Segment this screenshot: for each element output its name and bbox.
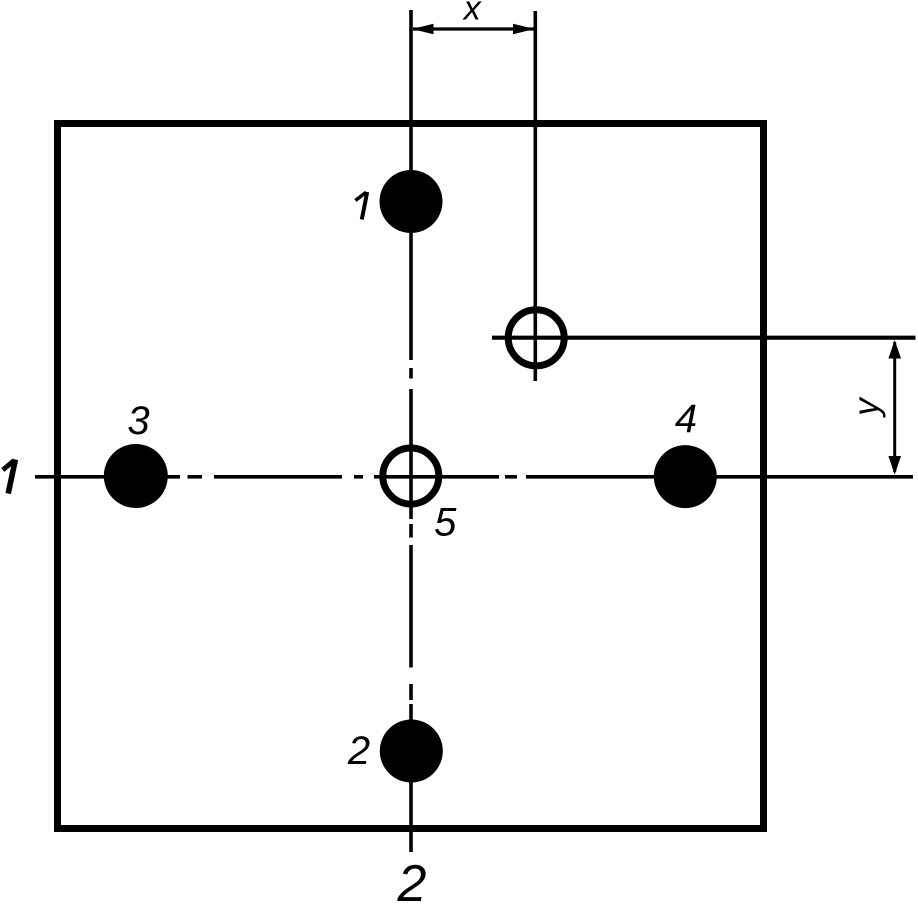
svg-text:3: 3 — [127, 399, 149, 443]
hole 4 (filled) — [654, 445, 717, 508]
hole 5 (open circle at center) — [383, 448, 439, 504]
arrowhead x right — [513, 24, 535, 34]
dimension line x — [413, 27, 534, 30]
centerline axis 1 horizontal: left solid segment — [35, 475, 180, 479]
centerline axis 1 horizontal: short dash — [188, 475, 203, 479]
centerline axis 2 vertical: middle solid segment — [409, 545, 413, 668]
dimension line y — [893, 342, 896, 472]
locating line through target circle (horizontal) — [492, 336, 916, 340]
hole 2 (filled) — [380, 720, 443, 783]
centerline axis 2 vertical: bottom solid segment — [409, 704, 413, 852]
svg-text:2: 2 — [397, 855, 427, 905]
centerline axis 2 vertical: short dash below hole 5 — [409, 524, 413, 538]
svg-text:y: y — [847, 396, 886, 418]
centerline axis 1 horizontal: short dash right of hole 5 — [505, 475, 517, 479]
centerline axis 2 vertical: segment into hole 5 — [409, 389, 413, 519]
centerline axis 2 vertical: short dash — [409, 368, 413, 379]
centerline axis 1 horizontal: long dash — [214, 475, 342, 479]
centerline axis 2 vertical: top solid segment — [409, 10, 413, 360]
centerline axis 1 horizontal: segment through hole 5 — [374, 475, 499, 479]
hole 3 (filled) — [104, 444, 168, 508]
arrowhead y top — [888, 340, 901, 359]
centerline axis 1 horizontal: short dash left of hole 5 — [354, 475, 363, 479]
centerline axis 1 horizontal: right solid segment through hole 4 — [526, 475, 913, 479]
svg-text:5: 5 — [434, 501, 457, 545]
arrowhead y bottom — [888, 456, 901, 475]
label 1 (hole) — [355, 192, 367, 220]
svg-text:x: x — [462, 0, 482, 28]
plate outline (square workpiece) — [58, 124, 764, 829]
centerline axis 2 vertical: short dash above hole 2 — [409, 684, 413, 700]
hole 1 (filled) — [380, 170, 443, 233]
extension line x-dimension (vertical through target circle) — [533, 11, 537, 381]
svg-text:4: 4 — [675, 397, 697, 441]
svg-text:2: 2 — [347, 729, 370, 773]
axis label 1 (left) — [3, 460, 16, 494]
arrowhead x left — [412, 24, 434, 34]
target circle x/y (open) — [508, 310, 564, 366]
